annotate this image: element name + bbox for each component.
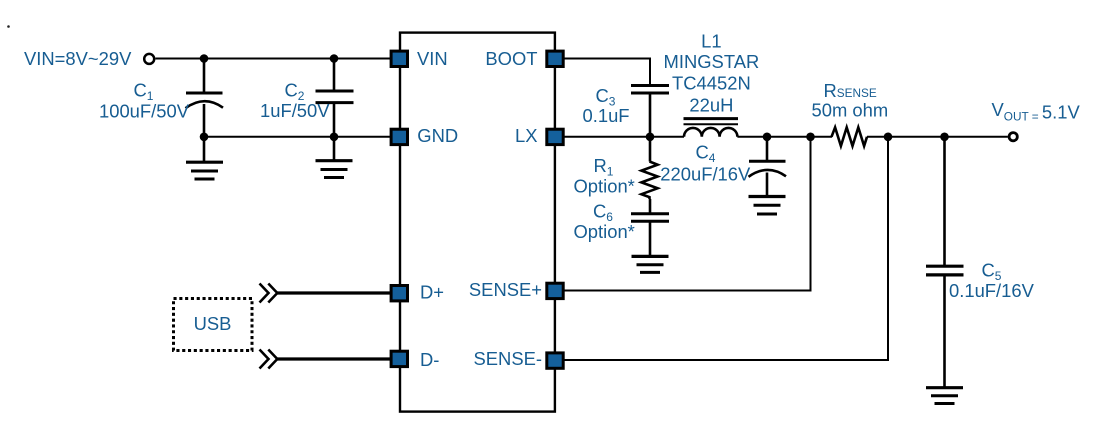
wire C2 top lead — [333, 59, 336, 92]
svg-text:SENSE+: SENSE+ — [469, 279, 542, 300]
node LX / C3 / R1 — [646, 133, 655, 142]
wire BOOT to C3 — [564, 59, 650, 86]
pin BOOT — [547, 51, 563, 66]
wire D+ — [277, 291, 391, 294]
svg-text:100uF/50V: 100uF/50V — [99, 100, 190, 121]
wire C1 top lead — [203, 59, 206, 93]
svg-text:1uF/50V: 1uF/50V — [260, 100, 330, 121]
svg-text:BOOT: BOOT — [485, 48, 537, 69]
wire GND rail — [204, 136, 399, 138]
node C2 top — [330, 54, 339, 63]
svg-text:SENSE-: SENSE- — [474, 348, 542, 369]
pin LX — [547, 129, 563, 144]
svg-text:22uH: 22uH — [689, 95, 733, 116]
ground under C1 — [186, 162, 223, 179]
USB box — [174, 299, 253, 351]
svg-text:LX: LX — [515, 125, 538, 146]
svg-text:220uF/16V: 220uF/16V — [660, 164, 751, 185]
wire LX rail — [564, 136, 684, 138]
IC U1 body — [400, 33, 555, 412]
ground under C5 — [926, 388, 963, 404]
pin D- — [391, 351, 407, 366]
capacitor C4 — [749, 137, 787, 196]
svg-text:VIN: VIN — [417, 48, 448, 69]
capacitor C3 — [631, 86, 669, 137]
node C1 top — [200, 54, 209, 63]
svg-text:50m ohm: 50m ohm — [812, 100, 889, 121]
pin VIN — [391, 51, 407, 66]
svg-text:MINGSTAR: MINGSTAR — [664, 51, 760, 72]
svg-text:USB: USB — [194, 313, 232, 334]
pin SENSE- — [547, 353, 563, 368]
stray dot top-left — [7, 25, 10, 28]
wire RSENSE to VOUT terminal — [867, 136, 1008, 138]
capacitor C6 — [631, 199, 669, 256]
svg-text:Option*: Option* — [574, 221, 635, 242]
ground under C2 — [316, 161, 353, 178]
svg-text:0.1uF: 0.1uF — [583, 105, 630, 126]
node C4 top — [763, 133, 772, 142]
node C1 bottom — [200, 133, 209, 142]
svg-text:0.1uF/16V: 0.1uF/16V — [949, 280, 1035, 301]
pin GND — [391, 129, 407, 144]
svg-text:Option*: Option* — [574, 175, 635, 196]
input terminal — [144, 54, 154, 64]
pin D+ — [391, 286, 407, 301]
resistor R1 — [641, 137, 657, 199]
node SENSE- tap — [884, 133, 893, 142]
capacitor C5 — [926, 137, 964, 388]
wire C1 ground lead — [203, 137, 206, 162]
svg-text:VIN=8V~29V: VIN=8V~29V — [24, 48, 132, 69]
wire C2 ground lead — [333, 137, 336, 161]
connector chevrons D- — [260, 350, 278, 369]
wire SENSE+ return — [564, 137, 811, 291]
svg-text:L1: L1 — [701, 31, 721, 52]
wire L1 to RSENSE — [737, 136, 832, 138]
connector chevrons D+ — [260, 284, 278, 303]
ground under C4 — [749, 197, 786, 215]
capacitor C1 — [186, 93, 224, 137]
svg-text:D+: D+ — [420, 282, 444, 303]
wire D- — [277, 357, 391, 360]
pin SENSE+ — [547, 283, 563, 298]
inductor L1 — [684, 119, 739, 137]
svg-text:TC4452N: TC4452N — [672, 72, 751, 93]
svg-text:D-: D- — [420, 349, 439, 370]
node SENSE+ tap — [806, 133, 815, 142]
node C5 tap — [940, 133, 949, 142]
svg-text:GND: GND — [417, 125, 458, 146]
resistor RSENSE — [832, 127, 868, 146]
node C2 bottom — [330, 133, 339, 142]
wire VIN rail — [156, 58, 400, 60]
output terminal — [1009, 133, 1017, 141]
ground under C6 — [632, 256, 669, 272]
wire SENSE- return — [564, 137, 888, 360]
capacitor C2 — [316, 91, 354, 137]
